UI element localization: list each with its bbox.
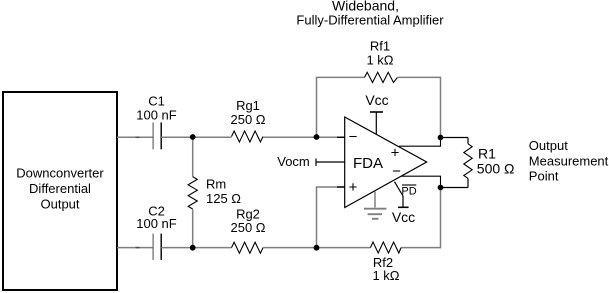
svg-text:125 Ω: 125 Ω — [206, 191, 241, 206]
svg-text:Output: Output — [529, 138, 568, 153]
ground — [374, 192, 376, 208]
svg-text:1 kΩ: 1 kΩ — [372, 268, 399, 283]
node junction output bottom — [438, 185, 444, 191]
svg-text:500 Ω: 500 Ω — [477, 161, 515, 177]
svg-text:−: − — [392, 163, 401, 180]
svg-text:250 Ω: 250 Ω — [230, 220, 265, 235]
svg-text:100 nF: 100 nF — [136, 108, 177, 123]
svg-text:Vcc: Vcc — [392, 209, 415, 225]
wire feedback bottom right — [401, 188, 440, 248]
wire - output lead — [401, 176, 441, 187]
wire + output lead — [399, 138, 441, 147]
wire inverting input pin lead — [337, 136, 345, 138]
svg-text:Downconverter: Downconverter — [16, 166, 104, 181]
svg-text:−: − — [349, 128, 358, 145]
resistor Rf1 — [365, 72, 398, 82]
wire Vocm input — [315, 159, 317, 167]
wire PD pin lead — [395, 182, 404, 196]
svg-text:Point: Point — [529, 169, 559, 184]
wire C2 to Rg2 — [161, 247, 231, 249]
svg-text:Output: Output — [40, 197, 79, 212]
svg-text:1 kΩ: 1 kΩ — [366, 52, 393, 67]
svg-text:FDA: FDA — [353, 155, 383, 172]
svg-text:Measurement: Measurement — [529, 153, 609, 168]
wire C1 to Rg1 — [161, 136, 231, 138]
svg-text:Rg1: Rg1 — [236, 98, 260, 113]
resistor Rg2 — [232, 242, 264, 253]
svg-text:PD: PD — [401, 186, 416, 198]
node junction output top — [438, 135, 444, 141]
wire Rm bottom lead — [192, 209, 194, 248]
svg-text:Fully-Differential Amplifier: Fully-Differential Amplifier — [296, 12, 444, 27]
wire box to C2 — [117, 247, 153, 249]
svg-text:Vocm: Vocm — [277, 154, 310, 169]
capacitor C1 — [152, 122, 154, 149]
wire Rg2 to Rf2 node — [263, 247, 370, 249]
resistor R1 — [441, 137, 469, 139]
pin PD power-down with overline — [402, 184, 416, 186]
wire feedback top right — [397, 77, 440, 137]
power Vcc bottom — [402, 196, 404, 207]
resistor Rg1 — [232, 131, 264, 142]
wire joint nub bottom rail — [136, 247, 140, 249]
op-amp U1 FDA — [345, 117, 427, 208]
capacitor C2 — [152, 234, 154, 260]
resistor Rm — [188, 177, 197, 209]
svg-text:Differential: Differential — [29, 181, 91, 196]
svg-text:100 nF: 100 nF — [136, 216, 177, 231]
wire non-inverting input pin lead — [337, 186, 345, 188]
svg-text:+: + — [391, 144, 400, 161]
wire joint nub top rail — [136, 136, 140, 138]
wire Rm top lead — [192, 137, 194, 177]
resistor Rf2 — [370, 242, 401, 253]
node junction feedback top — [314, 134, 320, 140]
wire box to C1 — [117, 136, 153, 138]
svg-text:+: + — [349, 179, 358, 196]
svg-text:R1: R1 — [478, 145, 496, 161]
svg-text:C1: C1 — [148, 94, 165, 109]
svg-text:Vcc: Vcc — [365, 92, 388, 108]
svg-text:250 Ω: 250 Ω — [230, 112, 265, 127]
wire feedback top left — [317, 77, 365, 137]
node junction Rm top — [190, 134, 196, 140]
node junction feedback bottom — [314, 245, 320, 251]
node junction Rm bottom — [190, 245, 196, 251]
wire Rg1 to FDA inverting input — [263, 136, 345, 138]
svg-text:Rm: Rm — [206, 176, 226, 191]
wire non-inverting input branch — [317, 187, 345, 248]
svg-text:Rf1: Rf1 — [370, 38, 390, 53]
block Downconverter Differential Output — [3, 92, 117, 290]
